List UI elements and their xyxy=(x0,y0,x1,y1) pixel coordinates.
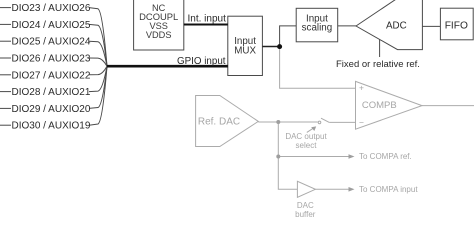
svg-text:DIO30 / AUXIO19: DIO30 / AUXIO19 xyxy=(12,121,91,132)
svg-text:Int. input: Int. input xyxy=(188,14,227,25)
svg-text:ADC: ADC xyxy=(386,20,407,31)
svg-text:VDDS: VDDS xyxy=(146,30,172,40)
svg-text:buffer: buffer xyxy=(295,210,316,219)
svg-text:DIO27 / AUXIO22: DIO27 / AUXIO22 xyxy=(12,70,91,81)
svg-text:DIO29 / AUXIO20: DIO29 / AUXIO20 xyxy=(12,104,91,115)
svg-text:FIFO: FIFO xyxy=(445,21,468,32)
svg-text:+: + xyxy=(359,82,364,92)
svg-text:COMPB: COMPB xyxy=(362,100,397,111)
svg-text:To COMPA ref.: To COMPA ref. xyxy=(359,152,412,161)
svg-text:DIO28 / AUXIO21: DIO28 / AUXIO21 xyxy=(12,87,91,98)
svg-text:MUX: MUX xyxy=(234,45,256,56)
svg-text:scaling: scaling xyxy=(302,23,333,34)
svg-text:DIO25 / AUXIO24: DIO25 / AUXIO24 xyxy=(12,37,91,48)
svg-text:To COMPA input: To COMPA input xyxy=(359,185,418,194)
svg-text:DAC: DAC xyxy=(297,201,314,210)
svg-text:Fixed or relative ref.: Fixed or relative ref. xyxy=(336,59,420,70)
svg-text:DIO26 / AUXIO23: DIO26 / AUXIO23 xyxy=(12,54,91,65)
svg-text:DAC output: DAC output xyxy=(285,132,327,141)
svg-text:Ref. DAC: Ref. DAC xyxy=(198,117,240,128)
svg-text:DIO24 / AUXIO25: DIO24 / AUXIO25 xyxy=(12,20,91,31)
svg-text:select: select xyxy=(296,141,318,150)
svg-text:−: − xyxy=(359,117,364,127)
svg-text:DIO23 / AUXIO26: DIO23 / AUXIO26 xyxy=(12,3,91,14)
svg-text:GPIO input: GPIO input xyxy=(177,56,226,67)
